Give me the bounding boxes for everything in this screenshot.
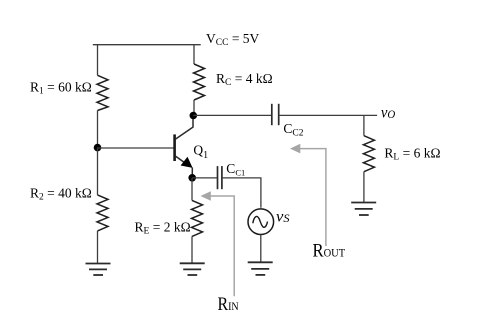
resistor R1 (97, 75, 108, 110)
ground RE (180, 263, 205, 275)
ground R2 (86, 264, 111, 276)
resistor RL (363, 136, 374, 172)
arrow RIN pointer (201, 191, 235, 296)
wire base (98, 147, 174, 149)
wire RE top (191, 178, 193, 201)
wire R1 top (97, 45, 99, 76)
wire RC bottom (193, 100, 195, 116)
svg-text:RC = 4 kΩ: RC = 4 kΩ (216, 71, 273, 88)
wire emitter to CC1 (192, 177, 217, 179)
resistor RC (194, 64, 205, 100)
wire R1 bottom (97, 111, 99, 149)
capacitor CC2 (272, 104, 279, 125)
svg-text:RL = 6 kΩ: RL = 6 kΩ (384, 146, 440, 163)
wire R2 top (97, 148, 99, 195)
node collector junction (190, 112, 198, 120)
svg-text:VCC = 5V: VCC = 5V (206, 31, 260, 48)
node emitter junction (188, 174, 196, 182)
ground vS (248, 262, 273, 275)
svg-text:RE = 2 kΩ: RE = 2 kΩ (135, 219, 191, 236)
wire CC1 to vS (222, 178, 261, 208)
wire CC2 to vO (279, 114, 377, 116)
node base junction (94, 144, 102, 152)
wire RL top (363, 115, 365, 135)
capacitor CC1 (218, 166, 222, 189)
wire R2 bottom (97, 231, 99, 263)
arrow ROUT pointer (290, 144, 326, 246)
ground RL (351, 203, 376, 216)
resistor R2 (97, 195, 108, 231)
wire collector to CC2 (193, 114, 271, 116)
resistor RE (192, 200, 203, 236)
transistor Q1 (175, 116, 193, 179)
wire VCC rail (93, 44, 201, 46)
wire vS bottom (260, 235, 262, 263)
wire RL bottom (363, 172, 365, 203)
wire RC top (193, 45, 195, 64)
source vS (248, 209, 274, 235)
wire RE bottom (191, 236, 193, 263)
